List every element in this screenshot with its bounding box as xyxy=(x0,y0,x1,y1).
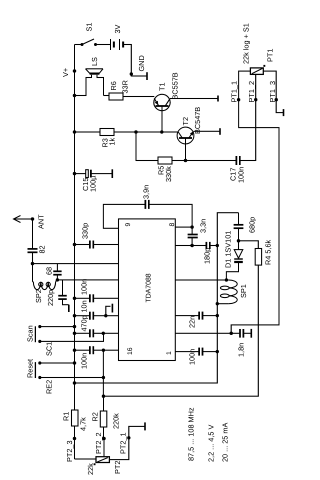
svg-text:10n: 10n xyxy=(80,300,89,312)
svg-text:SP1: SP1 xyxy=(239,284,248,298)
svg-text:BC557B: BC557B xyxy=(171,72,180,99)
svg-text:D1 1SV101: D1 1SV101 xyxy=(224,231,233,268)
svg-text:LS: LS xyxy=(90,57,99,66)
svg-text:100n: 100n xyxy=(80,279,89,295)
svg-text:R1: R1 xyxy=(62,412,71,421)
svg-text:ANT: ANT xyxy=(37,214,46,229)
svg-text:R2: R2 xyxy=(91,412,100,421)
svg-text:9: 9 xyxy=(125,223,132,227)
svg-text:PT1: PT1 xyxy=(266,49,275,62)
svg-text:3V: 3V xyxy=(113,24,122,33)
svg-text:Scan: Scan xyxy=(26,325,35,342)
svg-text:PT1_2: PT1_2 xyxy=(247,81,256,103)
svg-text:82: 82 xyxy=(38,245,47,253)
svg-text:PT2_2: PT2_2 xyxy=(94,433,103,455)
svg-text:20 ... 25 mA: 20 ... 25 mA xyxy=(221,423,230,462)
svg-text:S1: S1 xyxy=(85,23,94,32)
svg-text:Reset: Reset xyxy=(26,359,35,378)
svg-text:3,9n: 3,9n xyxy=(142,185,151,199)
svg-text:R4 5,6k: R4 5,6k xyxy=(264,240,273,265)
svg-text:100n: 100n xyxy=(188,349,197,365)
svg-text:100n: 100n xyxy=(237,167,246,183)
svg-text:PT2_1: PT2_1 xyxy=(119,433,128,455)
svg-text:1: 1 xyxy=(166,351,173,355)
svg-text:1k: 1k xyxy=(108,137,117,145)
svg-text:33R: 33R xyxy=(121,80,130,93)
svg-text:SP2: SP2 xyxy=(34,289,43,303)
svg-text:470p: 470p xyxy=(80,315,89,331)
svg-text:680p: 680p xyxy=(248,217,257,233)
svg-text:PT2_3: PT2_3 xyxy=(65,441,74,463)
svg-text:68: 68 xyxy=(45,267,54,275)
svg-text:GND: GND xyxy=(137,55,146,71)
svg-text:1,8n: 1,8n xyxy=(237,343,246,357)
svg-text:4,7k: 4,7k xyxy=(79,417,88,431)
svg-text:87,5 ... 108 MHz: 87,5 ... 108 MHz xyxy=(187,407,196,461)
svg-text:8: 8 xyxy=(169,223,176,227)
svg-text:220p: 220p xyxy=(46,290,55,306)
svg-text:V+: V+ xyxy=(61,68,70,77)
svg-text:BC547B: BC547B xyxy=(193,107,202,134)
svg-text:330k: 330k xyxy=(164,166,173,182)
svg-text:PT1_1: PT1_1 xyxy=(230,81,239,103)
svg-text:SC1: SC1 xyxy=(45,342,54,356)
svg-text:PT2: PT2 xyxy=(113,461,122,474)
svg-text:2,2 ... 4,5 V: 2,2 ... 4,5 V xyxy=(207,425,216,462)
svg-text:T1: T1 xyxy=(158,82,167,91)
svg-text:22k log + S1: 22k log + S1 xyxy=(242,23,251,64)
svg-text:180p: 180p xyxy=(203,248,212,264)
svg-text:TDA7088: TDA7088 xyxy=(146,273,153,302)
svg-text:T2: T2 xyxy=(181,117,190,126)
svg-text:3,3n: 3,3n xyxy=(199,219,208,233)
svg-text:RE2: RE2 xyxy=(45,380,54,394)
svg-text:22n: 22n xyxy=(188,316,197,328)
svg-text:100n: 100n xyxy=(80,353,89,369)
svg-text:22k: 22k xyxy=(86,463,95,475)
svg-text:100µ: 100µ xyxy=(89,175,98,192)
svg-text:220k: 220k xyxy=(112,413,121,429)
svg-text:16: 16 xyxy=(127,347,134,355)
svg-text:R6: R6 xyxy=(109,81,118,90)
svg-text:330p: 330p xyxy=(81,223,90,239)
svg-text:PT1_3: PT1_3 xyxy=(268,81,277,103)
